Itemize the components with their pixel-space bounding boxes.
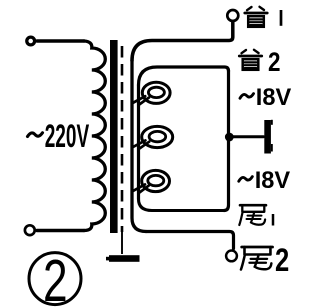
svg-text:2: 2 [275,243,289,279]
junction node [225,133,234,142]
svg-text:I8V: I8V [256,85,292,111]
loop 1 crossing [133,96,149,105]
secondary winding outer [132,61,146,232]
wire W2 bottom to terminal [146,232,234,249]
figure number circle [29,253,81,305]
label ~18V top [240,94,254,99]
svg-text:2: 2 [43,249,68,308]
loop 3 outer [142,170,170,191]
shield dashed line [121,46,124,232]
wire primary top [37,39,84,42]
label ~18V bottom [239,177,253,182]
terminal S4 (wei2) [226,251,237,262]
ground shield [106,255,140,262]
terminal primary bottom [25,225,35,235]
loop 3 inner [148,175,164,185]
label wei1 digit 1 [272,214,275,226]
wire to ground [233,135,264,138]
loop 3 crossing [133,184,149,193]
core bar [110,40,118,233]
loop 1 outer [142,82,170,103]
primary winding L1 [84,41,105,231]
terminal primary top [27,37,35,45]
loop 2 inner [149,131,166,141]
terminal S1 (shou1) [227,10,238,21]
label shou1 [245,7,267,27]
wire secondary right vertical [224,71,229,211]
loop 2 crossing [133,140,150,149]
wire W1 bottom horizontal [139,199,225,211]
loop 1 inner [148,87,164,97]
label shou1 digit 1 [280,10,283,26]
ground right [264,120,273,154]
shield lead wire [121,232,123,254]
svg-text:220V: 220V [45,118,90,154]
wire secondary S1 top [132,22,233,61]
label wei2 [241,247,273,270]
wire primary bottom [37,229,84,232]
svg-text:2: 2 [268,48,280,77]
label ~220V [28,133,43,137]
label wei1 [239,205,266,225]
svg-text:I8V: I8V [255,168,291,194]
secondary winding inner [137,85,140,199]
wire secondary S2 top arc [139,67,229,85]
loop 2 outer [142,126,173,147]
label shou2 [239,50,261,70]
